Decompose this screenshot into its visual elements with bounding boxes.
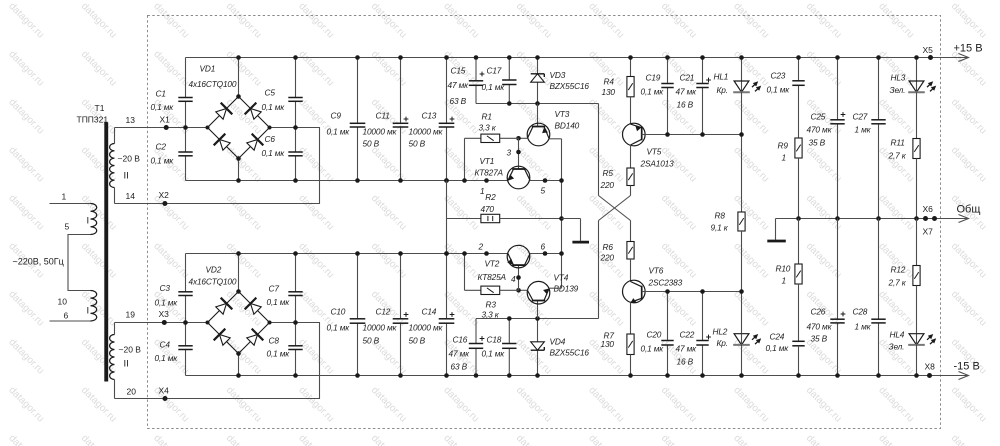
svg-text:0,1 мк: 0,1 мк (641, 87, 665, 97)
wire R8 to HL2 (741, 231, 743, 334)
junction C13/R2 riser at mid rail (444, 178, 449, 183)
led HL3 (909, 81, 924, 92)
svg-text:T1: T1 (95, 103, 105, 113)
junction VD4 at bottom rail (535, 373, 540, 378)
svg-text:R12: R12 (891, 265, 906, 275)
wire C13 column (446, 58, 448, 124)
junction bridge VD2 bottom vertex (236, 351, 241, 356)
capacitor C27 (871, 119, 885, 121)
svg-text:10000 мк: 10000 мк (363, 127, 398, 137)
junction C15 at top rail (474, 55, 479, 60)
svg-text:C16: C16 (453, 335, 468, 345)
svg-text:HL4: HL4 (890, 330, 905, 340)
svg-text:19: 19 (126, 310, 136, 320)
svg-text:47 мк: 47 мк (449, 349, 471, 359)
wire HL4 bottom lead (916, 334, 918, 376)
svg-text:Общ: Общ (957, 204, 981, 216)
svg-text:470 мк: 470 мк (807, 322, 833, 332)
wire node column x561 (561, 181, 563, 289)
svg-text:0,1 мк: 0,1 мк (267, 297, 291, 307)
junction VD3 at top rail (535, 55, 540, 60)
svg-text:VD4: VD4 (550, 337, 566, 347)
junction C9 at top (355, 55, 360, 60)
junction R1 riser at mid rail (462, 178, 467, 183)
svg-text:~220В, 50Гц: ~220В, 50Гц (13, 257, 64, 267)
svg-text:16 В: 16 В (677, 100, 694, 110)
svg-text:9,1 к: 9,1 к (711, 223, 729, 233)
resistor R2 (481, 214, 500, 222)
svg-text:2SA1013: 2SA1013 (640, 159, 675, 169)
svg-text:HL3: HL3 (891, 73, 906, 83)
wire R10 to C24 (798, 284, 800, 341)
pin 5 dot (543, 178, 548, 183)
wire R2 left lead (447, 218, 481, 220)
junction VD4/VT4 base at node line (535, 316, 540, 321)
wire C21 column (702, 58, 704, 84)
resistor R12 (913, 266, 920, 286)
junction C23 at top rail (796, 55, 801, 60)
wire C24 bottom lead (798, 346, 800, 376)
svg-text:220: 220 (600, 180, 615, 190)
terminal X5 (928, 55, 933, 60)
pin 6 dot (543, 251, 548, 256)
junction C27 at top rail (876, 55, 881, 60)
resistor R6 (627, 242, 634, 260)
svg-text:VT3: VT3 (555, 109, 570, 119)
svg-text:C2: C2 (156, 142, 167, 152)
svg-text:R4: R4 (604, 77, 615, 87)
resistor R9 (795, 138, 802, 158)
svg-text:C4: C4 (160, 340, 171, 350)
transistor VT6 emitter arrow (NPN out) (631, 298, 637, 303)
junction bridge VD2 right vertex (268, 321, 272, 325)
svg-text:X8: X8 (925, 362, 936, 372)
svg-text:КТ827А: КТ827А (475, 168, 504, 178)
plus mark C25 (841, 114, 846, 116)
arrow common output (959, 215, 969, 223)
junction C7 column at bottom rail (293, 373, 298, 378)
plus mark C22 (706, 336, 711, 338)
svg-text:0,1 мк: 0,1 мк (482, 349, 506, 359)
capacitor C26 (830, 318, 844, 320)
junction C17 at node line (507, 101, 512, 106)
wire crossover diagonal right-to-left (630, 186, 632, 196)
resistor R1 (481, 134, 500, 142)
transformer primary winding I (lower coil) (91, 291, 97, 322)
svg-text:0,1 мк: 0,1 мк (767, 85, 791, 95)
svg-text:2,7 к: 2,7 к (888, 278, 907, 288)
transistor VT5 base bar (641, 127, 643, 141)
junction C20 at bottom rail (665, 373, 670, 378)
svg-text:C6: C6 (265, 134, 276, 144)
capacitor C17 (502, 79, 516, 81)
junction VD1 riser at mid rail (236, 178, 241, 183)
junction X4 wire at C7/C8 column (293, 320, 298, 325)
svg-text:~20 В: ~20 В (119, 345, 142, 355)
svg-text:C14: C14 (422, 307, 437, 317)
capacitor C12 (393, 318, 409, 320)
svg-text:4x16CTQ100: 4x16CTQ100 (189, 79, 237, 89)
svg-text:10000 мк: 10000 мк (409, 127, 444, 137)
wire VT2 base lead node4 (518, 265, 520, 290)
capacitor C22 (696, 340, 708, 342)
junction VD2 riser at lower rail (236, 251, 241, 256)
svg-text:2,7 к: 2,7 к (888, 151, 907, 161)
plus mark C16 (480, 338, 485, 340)
transistor VT5 emitter (631, 124, 642, 128)
svg-text:0,1 мк: 0,1 мк (327, 127, 351, 137)
wire C23 column (798, 58, 800, 81)
led HL1 (734, 81, 749, 92)
junction VD3/VT3 base at node line (535, 101, 540, 106)
svg-text:C24: C24 (770, 332, 785, 342)
wire VT4 emitter to column (549, 287, 561, 289)
svg-text:BZX55C16: BZX55C16 (550, 81, 590, 91)
svg-text:VT6: VT6 (649, 266, 664, 276)
svg-text:C27: C27 (853, 112, 868, 122)
svg-text:VT5: VT5 (647, 147, 662, 157)
diode VD1.4 (lower right) (247, 140, 258, 151)
transistor VT5 emitter arrow (PNP) (635, 126, 641, 132)
svg-text:6: 6 (541, 242, 546, 252)
wire bottom negative rail (186, 375, 969, 377)
svg-text:1: 1 (782, 153, 786, 163)
resistor R3 (481, 286, 500, 294)
svg-text:X2: X2 (159, 190, 170, 200)
plus mark C13 (450, 118, 455, 120)
junction bridge VD1 right vertex (268, 126, 272, 130)
junction R4 at top rail (628, 55, 633, 60)
wire R1 right lead (500, 137, 519, 139)
svg-text:0,1 мк: 0,1 мк (262, 102, 286, 112)
svg-text:20: 20 (127, 387, 137, 397)
svg-text:I: I (87, 216, 90, 227)
capacitor C4 (178, 345, 192, 347)
wire primary lead 6 (50, 320, 91, 322)
junction C26 at bottom rail (835, 373, 840, 378)
transformer primary winding I (upper coil) (91, 204, 97, 235)
svg-text:C11: C11 (376, 111, 390, 121)
transistor VT1 emitter arrow (NPN out) (508, 174, 514, 180)
junction HL1 column at VT5 node line (739, 132, 744, 137)
junction C18 at node line (507, 316, 512, 321)
junction C7 column at lower rail (293, 251, 298, 256)
svg-text:0,1 мк: 0,1 мк (262, 148, 286, 158)
junction C21 at node line (700, 132, 705, 137)
svg-text:C20: C20 (647, 330, 662, 340)
svg-text:VD2: VD2 (206, 265, 222, 275)
capacitor C9 (350, 122, 366, 124)
wire HL1 to R8 (741, 92, 743, 212)
svg-text:47 мк: 47 мк (676, 344, 698, 354)
svg-text:R11: R11 (891, 138, 905, 148)
svg-text:R3: R3 (486, 300, 497, 310)
wire C14 column (446, 254, 448, 319)
capacitor C14 (439, 318, 455, 320)
svg-text:470: 470 (481, 204, 495, 214)
transistor VT3 base bar (532, 126, 545, 128)
wire C15 column and node line y=103 (475, 58, 477, 81)
svg-text:R5: R5 (603, 168, 614, 178)
svg-text:II: II (124, 171, 129, 182)
junction R2 riser at lower rail (444, 251, 449, 256)
svg-text:R2: R2 (485, 192, 496, 202)
wire HL2 bottom lead (741, 334, 743, 376)
wire C26 column (837, 219, 839, 320)
transistor VT4 emitter arrow (NPN out) (543, 289, 549, 295)
wire C5/C6 column (295, 58, 297, 98)
transistor VT1 collector (525, 169, 531, 181)
junction bridge VD1 left vertex (206, 126, 210, 130)
svg-text:6: 6 (64, 311, 69, 321)
junction C16 at bottom rail (474, 373, 479, 378)
bridge VD1 riser top (238, 58, 240, 97)
wire C20 column (667, 292, 669, 341)
svg-text:C18: C18 (487, 335, 502, 345)
junction C25 at top rail (835, 55, 840, 60)
svg-text:BZX55C16: BZX55C16 (550, 348, 590, 358)
svg-text:Зел.: Зел. (889, 342, 905, 352)
svg-text:R10: R10 (776, 264, 791, 274)
junction HL1 at top rail (739, 55, 744, 60)
svg-text:13: 13 (126, 115, 136, 125)
wire common rail ground stub (775, 219, 777, 240)
wire VT4 base lead (537, 301, 539, 319)
wire R12 top lead (916, 219, 918, 266)
junction R3 riser at lower rail (462, 251, 467, 256)
capacitor C23 (792, 80, 804, 82)
transistor VT2 base bar (512, 264, 525, 266)
junction C25 at common rail (835, 216, 840, 221)
wire C7/C8 column (295, 254, 297, 292)
transistor VT3 collector (527, 127, 533, 139)
wire 19 to X3 to bridge VD2 left (115, 322, 209, 324)
wire common rail (776, 218, 969, 220)
resistor R11 (913, 139, 920, 159)
svg-text:50 В: 50 В (409, 139, 426, 149)
svg-text:R9: R9 (778, 141, 789, 151)
transistor VT4 collector (527, 290, 533, 300)
wire C3/C4 column (185, 254, 187, 292)
junction VT3 collector / R1 / VT1 base (516, 136, 521, 141)
capacitor C20 (661, 340, 673, 342)
svg-text:0,1 мк: 0,1 мк (155, 297, 179, 307)
terminal X6 (923, 216, 928, 221)
svg-text:63 В: 63 В (451, 362, 468, 372)
svg-text:0,1 мк: 0,1 мк (327, 323, 351, 333)
wire VT6 base lead (642, 291, 647, 293)
bridge VD1 diamond outline (208, 97, 270, 159)
svg-text:35 В: 35 В (809, 138, 826, 148)
svg-text:VD1: VD1 (200, 64, 216, 74)
svg-text:C3: C3 (160, 283, 171, 293)
transistor VT4 base bar (532, 300, 545, 302)
transistor VT1 emitter (508, 169, 514, 181)
svg-text:3: 3 (507, 148, 512, 158)
wire C12 column (400, 254, 402, 319)
transistor VT2 emitter (508, 254, 514, 266)
svg-text:C23: C23 (771, 71, 786, 81)
junction R11 at common rail (914, 216, 919, 221)
svg-text:2: 2 (478, 242, 484, 252)
svg-text:X6: X6 (923, 204, 934, 214)
wire VT3 collector to node (519, 137, 528, 139)
svg-text:+15 В: +15 В (954, 43, 983, 55)
svg-text:~20 В: ~20 В (118, 154, 141, 164)
wire VT3 base lead (537, 104, 539, 127)
svg-text:3,3 к: 3,3 к (479, 123, 497, 133)
svg-text:C25: C25 (811, 112, 826, 122)
wire R3 left lead and riser (465, 289, 481, 291)
wire R4 top lead (630, 58, 632, 77)
junction X1 wire at C1/C2 column (183, 125, 188, 130)
wire R2 right lead (500, 218, 562, 220)
wire VT4 collector to node (519, 289, 528, 291)
svg-text:2SC2383: 2SC2383 (648, 278, 683, 288)
wire 13 to X1 to bridge VD1 left (115, 127, 209, 129)
capacitor C6 (288, 151, 302, 153)
transistor VT1 base bar (512, 168, 525, 170)
wire VT1 base lead node3 (518, 138, 520, 169)
capacitor C24 (792, 340, 804, 342)
diode VD2.3 (lower left) (220, 335, 231, 346)
wire HL3 top lead (916, 58, 918, 93)
svg-text:R6: R6 (603, 242, 614, 252)
wire R3 right lead (500, 289, 519, 291)
svg-text:C10: C10 (331, 307, 346, 317)
svg-text:C9: C9 (331, 111, 342, 121)
transistor VT6 emitter (631, 298, 642, 302)
svg-text:X1: X1 (160, 115, 171, 125)
junction C10 at top (355, 251, 360, 256)
wire crossover left column from node line (598, 104, 600, 196)
led HL4 (909, 334, 924, 345)
junction R8 column at VT6 node line (739, 289, 744, 294)
svg-text:0,1 мк: 0,1 мк (151, 102, 175, 112)
svg-text:0,1 мк: 0,1 мк (641, 344, 665, 354)
svg-text:1 мк: 1 мк (855, 125, 872, 135)
svg-text:C13: C13 (422, 111, 437, 121)
junction C5 column at mid rail (293, 178, 298, 183)
junction X2 wire at C5/C6 column (293, 125, 298, 130)
dashed border frame (148, 16, 941, 429)
junction C22 at node line (700, 289, 705, 294)
resistor R7 (627, 334, 634, 355)
svg-text:X3: X3 (159, 309, 170, 319)
ground symbol 2 (767, 240, 786, 243)
diode VD2.2 (upper right) (251, 304, 262, 315)
pin 2 dot (484, 251, 489, 256)
wire R11 bottom lead (916, 159, 918, 219)
diode VD1.2 (upper right) (251, 109, 262, 120)
capacitor C21 (696, 83, 708, 85)
bridge VD2 diamond outline (208, 292, 270, 354)
svg-text:C8: C8 (269, 336, 280, 346)
svg-text:HL2: HL2 (713, 327, 728, 337)
svg-text:220: 220 (600, 252, 615, 262)
svg-text:КТ825А: КТ825А (478, 272, 507, 282)
junction HL3 at top rail (914, 55, 919, 60)
wire to ground 1 (562, 218, 581, 220)
wire crossover diagonal left-to-right (599, 196, 631, 221)
wire VT5 base lead (642, 134, 647, 136)
resistor R5 (627, 168, 634, 186)
arrow +15V output (959, 54, 969, 62)
terminal X7 (932, 216, 937, 221)
plus mark C21 (706, 79, 711, 81)
capacitor C13 (439, 122, 455, 124)
wire C16 column and node line y=318 (476, 318, 599, 320)
junction bridge VD1 bottom vertex (236, 156, 241, 161)
wire R10 top lead (798, 219, 800, 265)
transistor VT3 emitter (544, 127, 549, 139)
junction X3 wire at C3/C4 column (183, 320, 188, 325)
wire lower mid rail (VT2 emitter bus) (186, 253, 508, 255)
svg-text:130: 130 (602, 87, 616, 97)
junction C12 at top (398, 251, 403, 256)
svg-text:VT1: VT1 (480, 156, 495, 166)
svg-text:16 В: 16 В (677, 357, 694, 367)
junction C11 at top (398, 55, 403, 60)
svg-text:5: 5 (541, 186, 546, 196)
wire R9 bottom lead (798, 158, 800, 219)
wire C11 column (400, 58, 402, 124)
capacitor C5 (288, 97, 302, 99)
svg-text:10000 мк: 10000 мк (409, 323, 444, 333)
wire VD4 column (537, 319, 539, 376)
transistor VT6 base bar (641, 286, 643, 300)
wire crossover left column to bottom node line (598, 221, 600, 319)
junction bridge VD2 left vertex (206, 321, 210, 325)
terminal X4 (163, 396, 168, 401)
node 4 dot (516, 275, 521, 280)
transistor VT6 collector (631, 282, 642, 287)
bridge VD1 riser bottom (238, 159, 240, 181)
bridge VD2 riser top (238, 254, 240, 292)
junction bridge VD2 top vertex (236, 289, 241, 294)
capacitor C19 (661, 83, 673, 85)
svg-text:VD3: VD3 (550, 70, 566, 80)
transistor VT4 circle (527, 281, 550, 304)
bridge VD2 riser bottom (238, 354, 240, 376)
zener diode VD4 (531, 342, 545, 350)
junction C24 at bottom rail (796, 373, 801, 378)
svg-text:C28: C28 (853, 307, 868, 317)
wire R6 to VT6 collector (630, 259, 632, 282)
transformer secondary winding II (upper) (114, 128, 116, 144)
svg-text:BD140: BD140 (555, 121, 580, 131)
svg-text:3,3 к: 3,3 к (482, 310, 500, 320)
wire R4 to VT5 emitter (630, 97, 632, 125)
wire VT5 base node line (645, 134, 741, 136)
transistor VT1 circle (507, 166, 530, 189)
transistor VT2 emitter arrow (PNP in) (507, 259, 513, 265)
svg-text:50 В: 50 В (409, 336, 426, 346)
arrow -15V output (959, 372, 969, 380)
junction C18 at bottom rail (507, 373, 512, 378)
wire crossover right column to R6 (630, 221, 632, 242)
wire C10 column (357, 254, 359, 319)
resistor R10 (795, 264, 802, 284)
wire VT2 collector to node 6 segment (530, 253, 561, 255)
junction C22 at bottom rail (700, 373, 705, 378)
svg-text:R8: R8 (715, 211, 726, 221)
svg-text:X5: X5 (923, 45, 934, 55)
wire C27 column (878, 58, 880, 120)
svg-text:0,1 мк: 0,1 мк (151, 156, 175, 166)
svg-text:VT2: VT2 (485, 259, 500, 269)
wire VT6 base node line (645, 291, 741, 293)
